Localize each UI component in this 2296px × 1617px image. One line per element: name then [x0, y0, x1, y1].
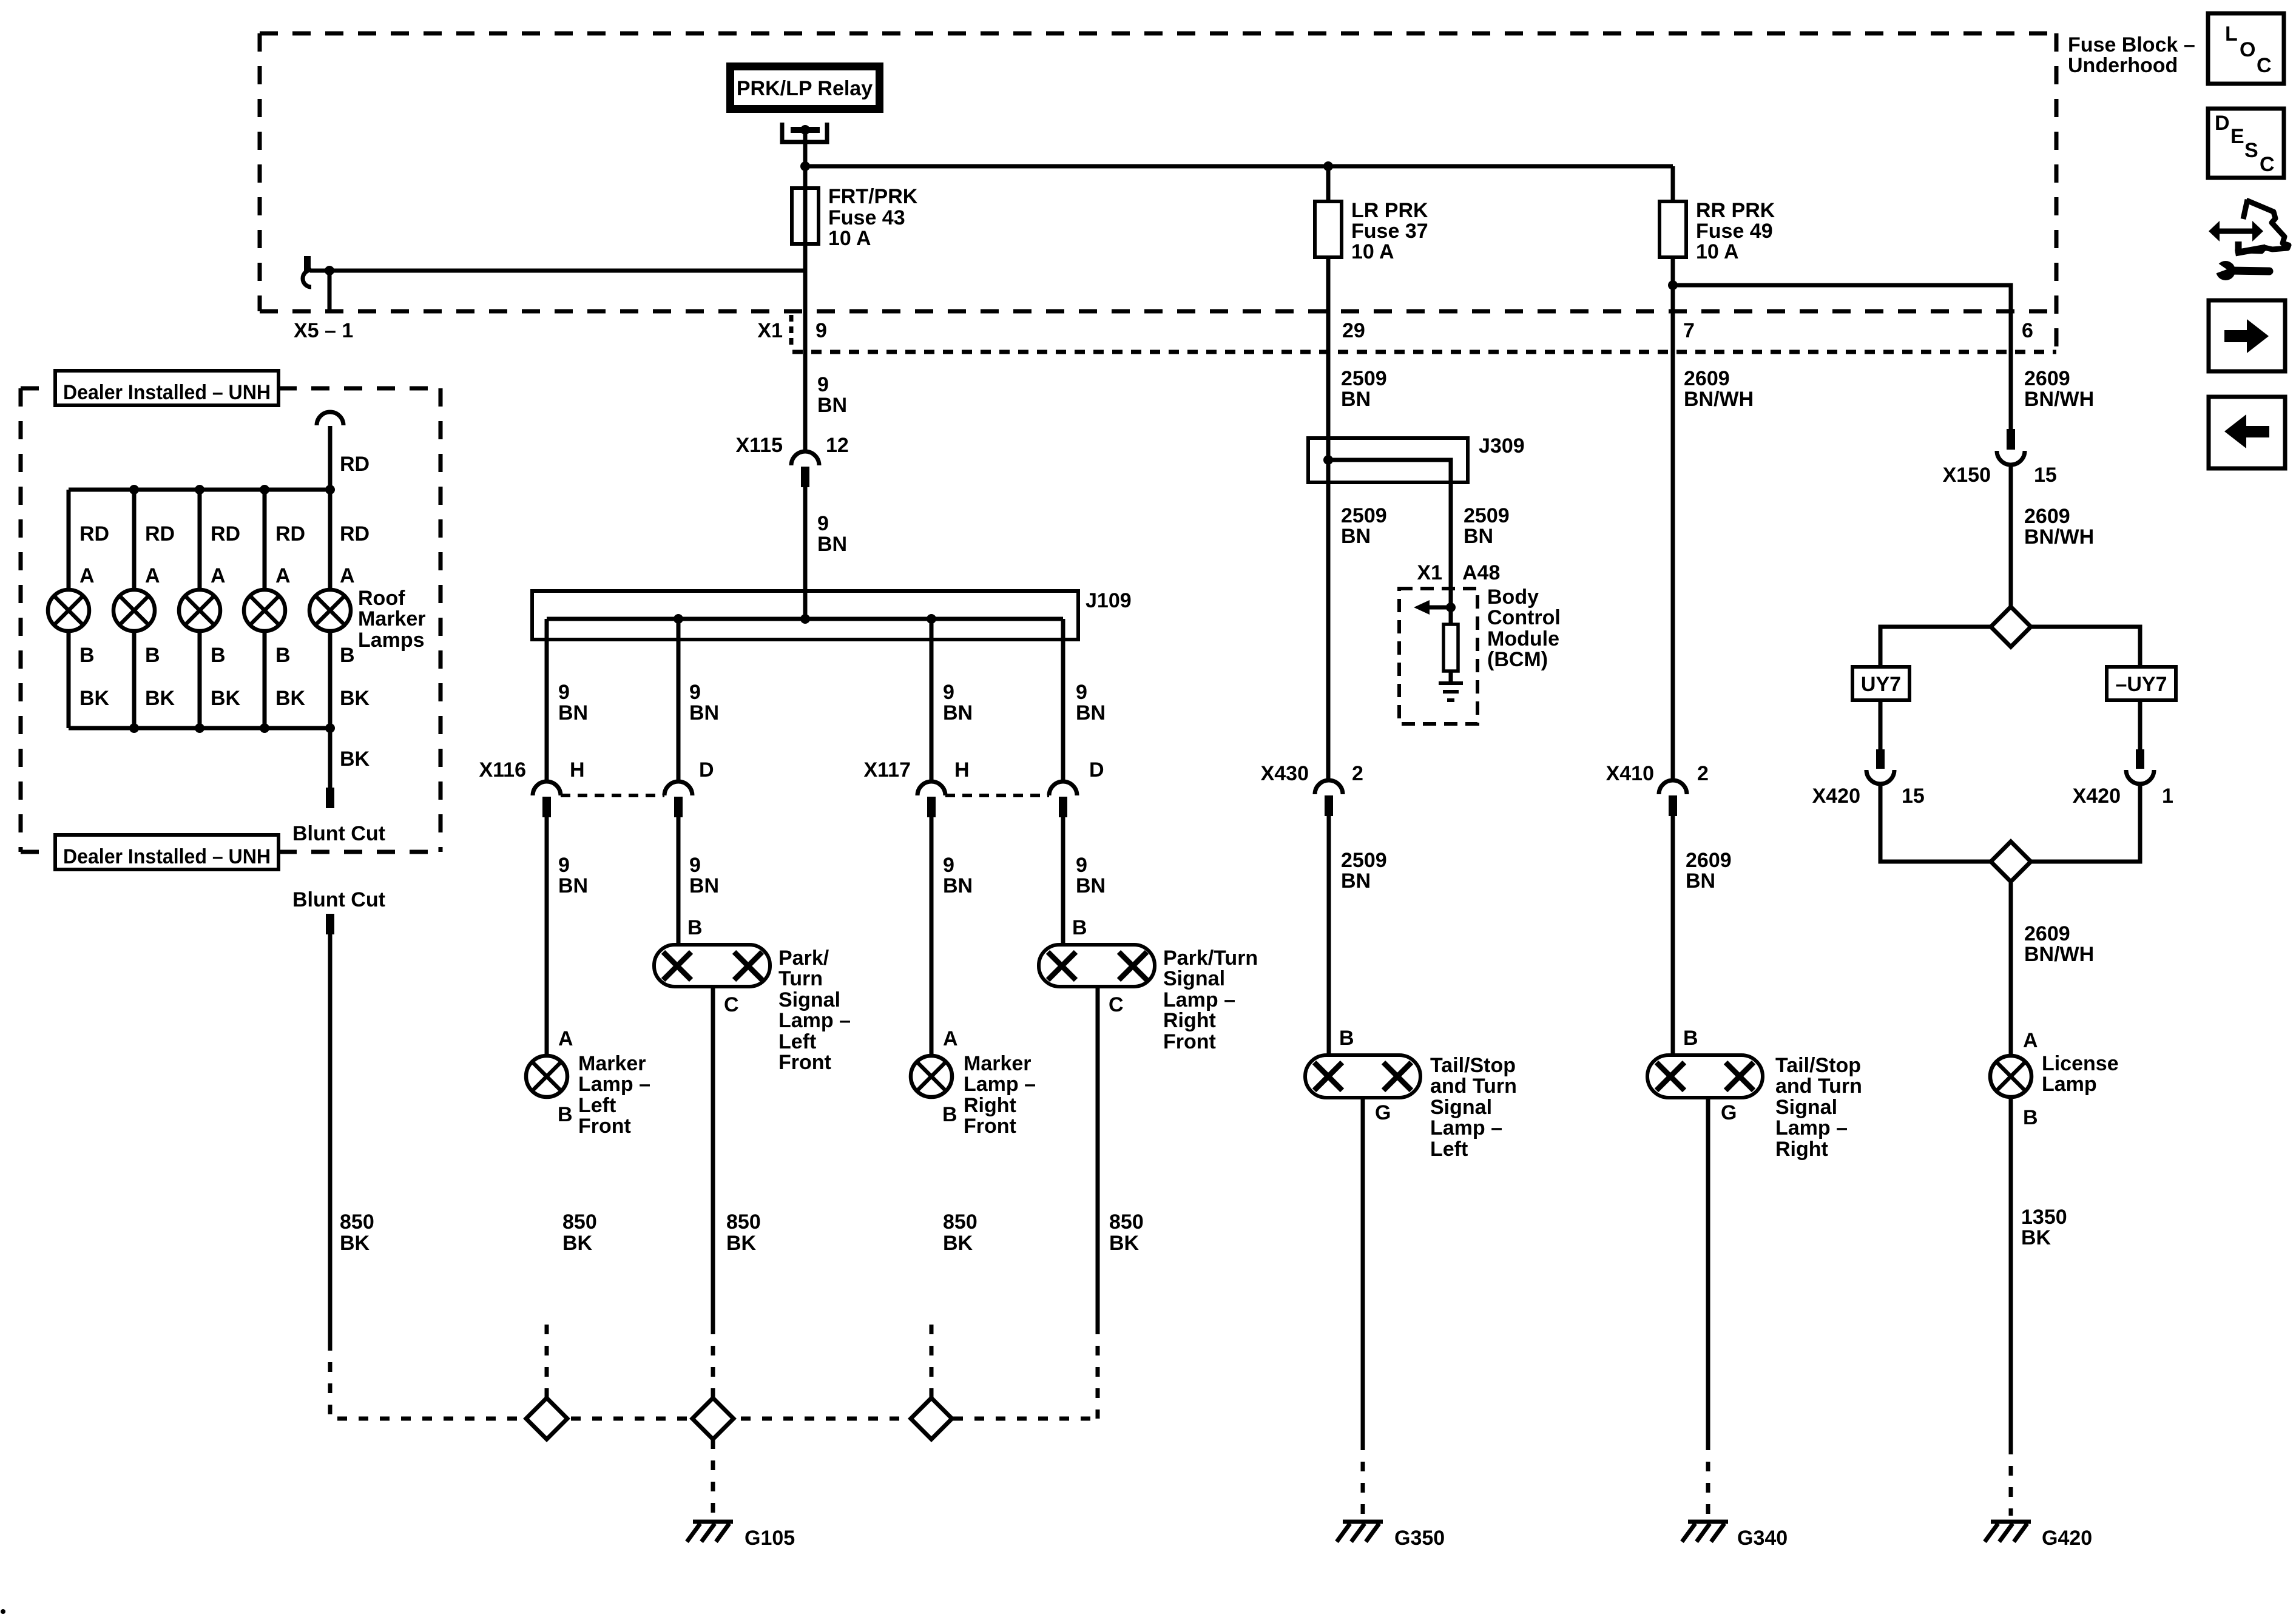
junction dots roof top bus [129, 485, 335, 495]
label 2609 BN/WH below X150 [2024, 505, 2094, 549]
roof marker lamp 3 [179, 590, 220, 631]
svg-text:FRT/PRK: FRT/PRK [828, 185, 918, 208]
connector X420 pin 15 arc [1866, 770, 1894, 784]
label Marker Lamp - Left Front [578, 1052, 650, 1138]
svg-text:9: 9 [558, 854, 570, 877]
svg-text:Front: Front [778, 1051, 831, 1074]
svg-text:Lamp –: Lamp – [578, 1073, 650, 1096]
relay K: PRK/LP Relay box [726, 62, 883, 113]
license lamp [1990, 1056, 2031, 1097]
connector X5-1 blade [304, 256, 311, 271]
label Park/Turn Signal Lamp - Right Front [1163, 947, 1258, 1053]
wire dashed tail left ground drop [1361, 1440, 1365, 1516]
wire roof marker ground lead [328, 728, 333, 788]
svg-text:Signal: Signal [1163, 967, 1225, 990]
svg-text:A: A [558, 1027, 573, 1050]
label Roof Marker Lamps [358, 587, 426, 652]
svg-text:S: S [2244, 139, 2258, 162]
wire -UY7 to X420 pin 1 [2138, 700, 2142, 749]
svg-text:Fuse 43: Fuse 43 [828, 206, 905, 229]
label License Lamp [2042, 1052, 2119, 1096]
svg-text:BN: BN [1341, 388, 1371, 411]
option box -UY7 [2107, 667, 2176, 700]
ground G105 [687, 1522, 733, 1542]
svg-text:C: C [724, 993, 739, 1016]
svg-text:2609: 2609 [2024, 505, 2070, 528]
wire LR PRK fuse feed [1326, 166, 1331, 201]
connector X430 arc [1315, 780, 1343, 794]
svg-text:G420: G420 [2042, 1527, 2092, 1550]
svg-text:Left: Left [578, 1094, 616, 1117]
junction dots J109 [674, 614, 936, 624]
wire feed into FRT/PRK fuse [803, 166, 808, 244]
svg-text:A: A [340, 564, 355, 587]
fuse LR PRK Fuse 37 [1315, 201, 1342, 257]
svg-text:BN: BN [558, 874, 588, 897]
wire 850 BK blunt cut lead [328, 934, 333, 1341]
label box Dealer Installed - UNH top [55, 371, 279, 405]
wire dashed tail right ground drop [1706, 1440, 1710, 1516]
svg-text:Front: Front [1163, 1030, 1216, 1053]
wire roof lamp branch 5 [328, 490, 333, 590]
fuse FRT/PRK Fuse 43 [792, 188, 819, 244]
connector X1 dotted row line [792, 350, 2056, 354]
resistor BCM internal load [1443, 624, 1458, 671]
tail/stop and turn signal lamp right [1647, 1055, 1763, 1098]
svg-text:B: B [2023, 1106, 2038, 1129]
svg-text:850: 850 [726, 1210, 761, 1234]
svg-text:Park/Turn: Park/Turn [1163, 947, 1258, 970]
wire roof lamp branch 4 [263, 490, 267, 590]
label wire 9 BN circuit from fuse 43 [817, 373, 847, 417]
svg-text:(BCM): (BCM) [1487, 648, 1548, 671]
stray period mark bottom left [1, 1609, 5, 1614]
svg-text:X116: X116 [479, 758, 526, 781]
svg-text:Fuse Block –: Fuse Block – [2068, 33, 2195, 56]
label 850 BK blunt lead [340, 1210, 374, 1255]
wire X420 pin 15 to splice diamond lower [1880, 784, 1991, 862]
connector X116 cavity D arc [664, 781, 692, 795]
svg-text:Park/: Park/ [778, 947, 829, 970]
svg-text:BN: BN [817, 394, 847, 417]
svg-text:BN: BN [689, 874, 719, 897]
svg-text:BN: BN [1076, 701, 1106, 724]
svg-text:X420: X420 [2073, 785, 2121, 808]
option box UY7 [1852, 667, 1909, 700]
label Park/Turn Signal Lamp - Left Front [778, 947, 851, 1074]
wire fuse block internal run to X5-1 [310, 269, 805, 273]
wire branch 1 to marker lamp [545, 817, 549, 1056]
svg-text:BN/WH: BN/WH [2024, 388, 2094, 411]
svg-text:Fuse 37: Fuse 37 [1351, 220, 1428, 243]
label 850 BK branch 1 [562, 1210, 597, 1255]
svg-text:2509: 2509 [1341, 849, 1387, 872]
relay output pin bar [791, 127, 820, 133]
svg-text:UY7: UY7 [1861, 673, 1901, 696]
svg-text:Body: Body [1487, 586, 1539, 609]
svg-text:RD: RD [275, 522, 305, 545]
label 9 BN lower branch 1 [558, 854, 588, 897]
connector X116 cavity D blade [674, 797, 683, 817]
ground G420 [1985, 1522, 2031, 1542]
svg-text:Dealer Installed – UNH: Dealer Installed – UNH [63, 845, 271, 868]
svg-text:A: A [145, 564, 160, 587]
label Marker Lamp - Right Front [964, 1052, 1036, 1138]
connector X420 pin 15 blade [1876, 749, 1885, 769]
svg-text:X117: X117 [863, 758, 911, 781]
svg-text:BN: BN [943, 701, 973, 724]
splice diamond branch 2 [692, 1398, 734, 1439]
svg-text:Tail/Stop: Tail/Stop [1775, 1054, 1861, 1077]
svg-text:X410: X410 [1606, 762, 1654, 785]
svg-text:Marker: Marker [358, 607, 426, 630]
svg-text:Right: Right [1163, 1009, 1216, 1032]
svg-text:9: 9 [558, 681, 570, 704]
svg-text:A: A [211, 564, 226, 587]
wire branch to license feed [1673, 285, 2011, 429]
svg-text:B: B [1339, 1027, 1354, 1050]
svg-text:B: B [275, 644, 291, 667]
wire RR PRK fuse feed [1671, 166, 1675, 201]
svg-text:C: C [2257, 54, 2272, 77]
wire tail right to ground [1706, 1098, 1710, 1440]
wire dashed branch 3 drop [930, 1325, 934, 1398]
wire dashed branch 1 drop [545, 1325, 549, 1398]
svg-text:Right: Right [1775, 1138, 1828, 1161]
svg-text:Signal: Signal [1775, 1096, 1837, 1119]
svg-text:D: D [1089, 758, 1104, 781]
svg-text:RR PRK: RR PRK [1696, 199, 1775, 222]
label 2509 BN LR feed [1341, 367, 1387, 411]
labels RD A B BK branch 1 [79, 522, 110, 710]
wire park left lamp to ground bus [711, 987, 715, 1325]
svg-text:9: 9 [689, 854, 701, 877]
svg-text:BN: BN [1341, 869, 1371, 893]
svg-text:850: 850 [1109, 1210, 1144, 1234]
svg-text:Blunt Cut: Blunt Cut [292, 822, 385, 845]
label Tail/Stop and Turn Signal Lamp - Left [1430, 1054, 1517, 1161]
svg-text:10 A: 10 A [828, 227, 871, 250]
svg-text:RD: RD [79, 522, 109, 545]
connector X5-1 arc [303, 270, 311, 287]
svg-text:B: B [942, 1103, 957, 1126]
wire X410 to tail lamp right [1671, 816, 1675, 1055]
connector X115 blade [801, 467, 809, 487]
svg-text:2509: 2509 [1341, 367, 1387, 390]
svg-text:Blunt Cut: Blunt Cut [292, 888, 385, 911]
sidebar back arrow box [2209, 397, 2285, 468]
label 9 BN branch 3 [943, 681, 973, 724]
svg-text:10 A: 10 A [1351, 240, 1394, 263]
svg-text:RD: RD [211, 522, 240, 545]
junction dot feed bus at LR PRK fuse [1323, 161, 1333, 171]
svg-text:BN: BN [558, 701, 588, 724]
dealer installed module dashed outline [21, 388, 441, 852]
connector X410 arc [1659, 780, 1687, 794]
wire J109 branch 3 down [930, 619, 934, 781]
svg-text:Right: Right [964, 1094, 1016, 1117]
label 2609 BN/WH to license [2024, 922, 2094, 966]
wire X115 to splice J109 [803, 487, 808, 619]
wire diamond to -UY7 [2031, 627, 2140, 667]
svg-text:PRK/LP Relay: PRK/LP Relay [737, 77, 873, 100]
svg-text:–UY7: –UY7 [2115, 673, 2167, 696]
svg-text:Lamp –: Lamp – [1163, 988, 1235, 1011]
connector X150 arc [1997, 451, 2025, 465]
svg-text:Control: Control [1487, 606, 1561, 629]
sidebar service icon panel outline [2246, 200, 2289, 251]
labels RD A B BK branch 5 [340, 522, 370, 710]
svg-text:BK: BK [2021, 1226, 2051, 1249]
svg-text:E: E [2230, 125, 2244, 148]
wire roof marker top bus [69, 488, 330, 492]
junction dot relay pin [800, 125, 810, 135]
label FRT/PRK Fuse 43 10 A [828, 185, 918, 250]
svg-text:B: B [145, 644, 160, 667]
wire dashed branch 4 drop [1096, 1325, 1100, 1419]
roof marker lamp 4 [244, 590, 285, 631]
svg-text:9: 9 [1076, 681, 1087, 704]
svg-text:and Turn: and Turn [1775, 1075, 1862, 1098]
wire dashed license ground drop [2009, 1445, 2013, 1516]
svg-text:G105: G105 [745, 1527, 795, 1550]
label 2509 BN below J309 left [1341, 504, 1387, 548]
label box Dealer Installed - UNH bottom [55, 835, 279, 869]
svg-text:850: 850 [340, 1210, 374, 1234]
svg-text:Left: Left [1430, 1138, 1468, 1161]
wire branch 4 to park lamp [1061, 817, 1065, 945]
label 850 BK branch 4 [1109, 1210, 1144, 1255]
splice diamond upper UY7 [1991, 607, 2031, 647]
junction dot BCM tap [1446, 603, 1456, 612]
svg-text:G340: G340 [1737, 1527, 1788, 1550]
svg-text:BN: BN [1464, 525, 1493, 548]
labels RD A B BK branch 4 [275, 522, 306, 710]
label 2509 BN to tail left [1341, 849, 1387, 893]
svg-text:Signal: Signal [1430, 1096, 1492, 1119]
svg-text:BN: BN [1686, 869, 1715, 893]
svg-text:Fuse 49: Fuse 49 [1696, 220, 1773, 243]
connector X420 pin 1 blade [2136, 749, 2144, 769]
svg-text:G: G [1721, 1101, 1737, 1124]
fuse block underhood dashed outline [260, 33, 2056, 352]
svg-text:BK: BK [79, 687, 110, 710]
svg-text:2: 2 [1352, 762, 1363, 785]
svg-text:Lamp –: Lamp – [964, 1073, 1036, 1096]
junction dots roof bottom bus [129, 723, 335, 733]
connector X117 cavity D blade [1059, 797, 1067, 817]
svg-text:9: 9 [1076, 854, 1087, 877]
svg-text:850: 850 [562, 1210, 597, 1234]
svg-text:9: 9 [817, 373, 829, 396]
svg-text:2509: 2509 [1464, 504, 1510, 527]
ground G350 [1337, 1522, 1383, 1542]
blunt cut terminal lower [326, 914, 334, 934]
sidebar service icon bar [2235, 241, 2242, 252]
module A48 BCM dashed box [1399, 589, 1477, 724]
svg-text:BK: BK [145, 687, 175, 710]
label 9 BN lower branch 4 [1076, 854, 1106, 897]
label RR PRK Fuse 49 10 A [1696, 199, 1775, 263]
wire X420 pin 1 to splice diamond lower [2031, 784, 2140, 862]
svg-text:Left: Left [778, 1030, 816, 1053]
connector X115 arc [791, 451, 819, 465]
svg-text:X5 – 1: X5 – 1 [294, 319, 353, 342]
BCM internal arrow [1414, 600, 1451, 615]
wire roof marker bottom bus [69, 726, 330, 731]
svg-text:Front: Front [964, 1115, 1016, 1138]
svg-text:BN: BN [943, 874, 973, 897]
label Tail/Stop and Turn Signal Lamp - Right [1775, 1054, 1862, 1161]
svg-text:Lamp –: Lamp – [778, 1009, 851, 1032]
svg-text:BN/WH: BN/WH [2024, 525, 2094, 549]
svg-text:1350: 1350 [2021, 1206, 2067, 1229]
junction dot feed bus left [800, 161, 810, 171]
svg-text:A: A [275, 564, 291, 587]
connector X150 blade [2007, 429, 2015, 450]
splice J109 internal bus [547, 617, 1063, 621]
wire J109 branch 4 down [1061, 619, 1065, 781]
roof marker lamp 5 [309, 590, 351, 631]
roof marker lamp 2 [113, 590, 155, 631]
svg-text:6: 6 [2022, 319, 2033, 342]
svg-text:BK: BK [726, 1232, 757, 1255]
svg-text:BK: BK [340, 1232, 370, 1255]
svg-text:2609: 2609 [1686, 849, 1732, 872]
wire branch 2 to park lamp [677, 817, 681, 945]
svg-text:C: C [1109, 993, 1124, 1016]
tail/stop and turn signal lamp left [1305, 1055, 1420, 1098]
svg-text:BK: BK [562, 1232, 593, 1255]
label 850 BK branch 3 [943, 1210, 977, 1255]
label 2509 BN below J309 right [1464, 504, 1510, 548]
splice diamond branch 1 [526, 1398, 567, 1439]
wire through J309 [1326, 438, 1331, 482]
svg-text:Marker: Marker [964, 1052, 1032, 1075]
wire FRT fuse down to X1 pin 9 [803, 244, 808, 451]
connector X116 cavity H arc [533, 781, 561, 795]
svg-text:X1: X1 [1417, 561, 1442, 584]
svg-text:15: 15 [2034, 464, 2057, 487]
svg-text:B: B [211, 644, 226, 667]
marker lamp right front [911, 1056, 952, 1097]
wire feed bus horizontal [805, 164, 1673, 169]
blunt cut terminal upper [326, 788, 334, 808]
svg-text:Tail/Stop: Tail/Stop [1430, 1054, 1516, 1077]
labels RD A B BK branch 2 [145, 522, 175, 710]
svg-text:1: 1 [2162, 785, 2173, 808]
svg-text:C: C [2260, 153, 2275, 176]
marker lamp left front [526, 1056, 567, 1097]
svg-text:B: B [687, 916, 703, 939]
svg-text:Underhood: Underhood [2068, 54, 2178, 77]
label 850 BK branch 2 [726, 1210, 761, 1255]
wire roof marker feed [328, 426, 333, 490]
sidebar DESC box [2208, 109, 2284, 178]
svg-text:X420: X420 [1812, 785, 1860, 808]
label 9 BN lower branch 3 [943, 854, 973, 897]
svg-text:BN: BN [689, 701, 719, 724]
svg-text:10 A: 10 A [1696, 240, 1739, 263]
svg-text:Dealer Installed – UNH: Dealer Installed – UNH [63, 381, 271, 404]
label 1350 BK [2021, 1206, 2067, 1249]
wire branch 3 to marker lamp [930, 817, 934, 1056]
wire J109 branch 2 down [677, 619, 681, 781]
svg-text:A: A [2023, 1029, 2038, 1052]
svg-text:9: 9 [815, 319, 827, 342]
wire LR fuse down to J309 [1326, 257, 1331, 438]
svg-text:License: License [2042, 1052, 2119, 1075]
wire park right lamp to ground bus [1096, 987, 1100, 1325]
label 9 BN lower branch 2 [689, 854, 719, 897]
wire roof lamp branch 2 [132, 490, 137, 590]
svg-text:G350: G350 [1394, 1527, 1445, 1550]
connector X116 dashed tie [561, 794, 664, 797]
svg-text:15: 15 [1902, 785, 1925, 808]
wire BCM arrow to resistor [1449, 607, 1453, 624]
svg-text:X1: X1 [757, 319, 783, 342]
svg-text:Lamps: Lamps [358, 629, 425, 652]
svg-text:RD: RD [340, 453, 370, 476]
svg-text:Turn: Turn [778, 967, 823, 990]
svg-text:D: D [699, 758, 714, 781]
connector X117 cavity H arc [917, 781, 945, 795]
svg-text:BN/WH: BN/WH [2024, 943, 2094, 966]
svg-text:RD: RD [145, 522, 175, 545]
svg-text:9: 9 [943, 854, 954, 877]
svg-text:Front: Front [578, 1115, 631, 1138]
wire diamond to license lamp [2009, 882, 2013, 1056]
connector X1 dashed separator [789, 315, 794, 345]
svg-text:7: 7 [1683, 319, 1695, 342]
wire X430 to tail lamp left [1327, 816, 1331, 1055]
wire dashed blunt lead to ground bus [330, 1341, 1098, 1419]
label LR PRK Fuse 37 10 A [1351, 199, 1428, 263]
svg-text:BK: BK [340, 687, 370, 710]
label 2609 BN/WH RR feed [1684, 367, 1754, 411]
svg-text:LR PRK: LR PRK [1351, 199, 1428, 222]
svg-text:RD: RD [340, 522, 370, 545]
connector X430 blade [1325, 795, 1333, 816]
splice diamond lower license [1991, 842, 2031, 882]
svg-text:X430: X430 [1261, 762, 1309, 785]
svg-text:G: G [1375, 1101, 1391, 1124]
svg-text:29: 29 [1342, 319, 1365, 342]
connector arc roof marker feed [317, 412, 343, 425]
svg-text:J109: J109 [1086, 589, 1132, 612]
svg-text:2609: 2609 [2024, 922, 2070, 945]
sidebar LOC box [2208, 13, 2284, 84]
label 2609 BN/WH license feed [2024, 367, 2094, 411]
label wire 9 BN to J109 [817, 512, 847, 556]
svg-text:Signal: Signal [778, 988, 840, 1011]
svg-text:X150: X150 [1943, 464, 1991, 487]
wire X150 to splice diamond upper [2009, 465, 2013, 607]
svg-text:2509: 2509 [1341, 504, 1387, 527]
ground G340 [1682, 1522, 1728, 1542]
relay output terminal bracket [782, 123, 827, 142]
splice pack J109 box [532, 591, 1078, 640]
svg-text:O: O [2240, 38, 2255, 61]
sidebar service icon stub [2243, 200, 2247, 219]
connector X420 pin 1 arc [2126, 770, 2154, 784]
connector X117 dashed tie [945, 794, 1049, 797]
svg-text:and Turn: and Turn [1430, 1075, 1517, 1098]
ground BCM internal [1439, 683, 1463, 700]
connector X117 cavity D arc [1049, 781, 1077, 795]
wire RR fuse down through X1 pin 7 [1671, 257, 1675, 780]
svg-text:9: 9 [689, 681, 701, 704]
